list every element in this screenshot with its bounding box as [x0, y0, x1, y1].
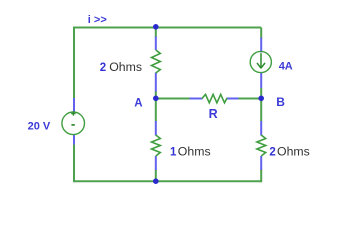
- svg-text:A: A: [134, 98, 142, 110]
- current source I1 pin top: [260, 38, 262, 53]
- label 4A: [279, 60, 293, 72]
- label 20 V: [28, 120, 51, 132]
- svg-text:i >>: i >>: [88, 14, 107, 26]
- svg-text:2: 2: [269, 146, 275, 158]
- current source I1 pin bottom: [260, 73, 262, 89]
- wire right lower stub: [260, 170, 262, 183]
- wire right middle: [260, 88, 262, 122]
- label node A: [134, 98, 142, 110]
- svg-text:B: B: [276, 95, 285, 109]
- wire top net: [74, 27, 261, 29]
- resistor R3 1 Ohms body: [152, 135, 161, 156]
- resistor R horizontal pin right: [227, 98, 239, 100]
- resistor R body: [202, 94, 227, 102]
- junction dot top middle: [153, 24, 159, 30]
- svg-text:R: R: [209, 107, 218, 121]
- svg-text:Ohms: Ohms: [178, 144, 211, 158]
- wire middle between resistors: [155, 91, 157, 122]
- svg-text:2: 2: [100, 62, 106, 74]
- voltage source V1 pin top: [73, 98, 75, 112]
- current source I1: [250, 51, 271, 72]
- wire middle lower stub: [155, 170, 157, 183]
- resistor R3 1 Ohms pin top: [155, 121, 157, 136]
- resistor R4 2 Ohms right pin bottom: [260, 156, 262, 170]
- label 1 Ohms: [170, 144, 211, 158]
- resistor R horizontal pin left: [190, 98, 203, 100]
- wire left upper: [73, 27, 75, 99]
- voltage source V1: [62, 111, 85, 134]
- wire middle upper stub: [155, 28, 157, 38]
- svg-text:20 V: 20 V: [28, 120, 51, 132]
- svg-text:Ohms: Ohms: [109, 60, 142, 74]
- wire right upper stub: [260, 28, 262, 39]
- wire node A to R left: [156, 98, 190, 100]
- resistor R2 2 Ohms top body: [152, 50, 161, 73]
- label R: [209, 107, 218, 121]
- svg-text:Ohms: Ohms: [277, 144, 310, 158]
- label 2 Ohms right: [269, 144, 309, 158]
- resistor R2 2 Ohms top pin top: [155, 37, 157, 51]
- node A junction dot: [153, 96, 159, 102]
- resistor R4 2 Ohms right body: [257, 135, 266, 156]
- resistor R2 2 Ohms top pin bottom: [155, 73, 157, 92]
- junction dot bottom middle: [153, 178, 159, 184]
- resistor R4 2 Ohms right pin top: [260, 121, 262, 136]
- label i >> current annotation: [88, 14, 107, 26]
- svg-text:4A: 4A: [279, 60, 293, 72]
- voltage source V1 pin bottom: [73, 135, 75, 145]
- resistor R3 1 Ohms pin bottom: [155, 156, 157, 170]
- label 2 Ohms top: [100, 60, 142, 74]
- wire R right to node B: [238, 98, 261, 100]
- label node B: [276, 95, 285, 109]
- wire left lower: [73, 144, 75, 182]
- node B junction dot: [258, 96, 264, 102]
- wire bottom net: [74, 180, 261, 182]
- svg-text:1: 1: [170, 146, 177, 158]
